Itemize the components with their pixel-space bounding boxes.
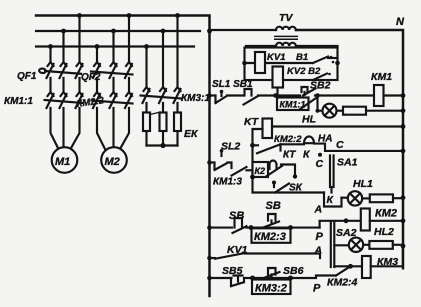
- svg-text:SA1: SA1: [337, 157, 358, 169]
- svg-text:ЕК: ЕК: [184, 128, 199, 140]
- svg-text:А: А: [314, 204, 323, 216]
- svg-text:КМ3: КМ3: [377, 256, 398, 268]
- svg-text:KV2 В2: KV2 В2: [287, 66, 321, 77]
- svg-text:К2: К2: [255, 166, 266, 176]
- svg-text:НА: НА: [318, 134, 332, 145]
- svg-text:N: N: [396, 16, 405, 28]
- svg-text:Р: Р: [313, 283, 321, 295]
- svg-text:КМ1:3: КМ1:3: [213, 177, 242, 188]
- svg-text:SB5: SB5: [222, 265, 243, 277]
- svg-text:М2: М2: [105, 156, 120, 168]
- svg-text:Р: Р: [316, 231, 324, 243]
- svg-text:КМ2:2: КМ2:2: [274, 134, 302, 145]
- svg-text:SВ: SВ: [266, 200, 281, 212]
- svg-text:С: С: [316, 158, 324, 170]
- svg-text:SК: SК: [289, 183, 303, 194]
- svg-text:КМ3:2: КМ3:2: [255, 283, 287, 295]
- svg-text:КМ2: КМ2: [375, 208, 397, 220]
- svg-text:HL: HL: [302, 114, 316, 126]
- svg-text:HL2: HL2: [374, 226, 394, 238]
- svg-text:QF2: QF2: [81, 72, 101, 83]
- svg-text:SB: SB: [229, 210, 244, 222]
- svg-text:КМ1:1: КМ1:1: [280, 100, 306, 110]
- svg-text:КМ1:1: КМ1:1: [4, 96, 33, 107]
- svg-text:КМ1: КМ1: [371, 71, 392, 83]
- svg-text:КМ2:3: КМ2:3: [254, 231, 286, 243]
- svg-text:КТ: КТ: [283, 150, 296, 161]
- svg-text:SB2: SB2: [310, 80, 331, 92]
- svg-text:KV1: KV1: [227, 244, 248, 256]
- svg-text:КМ2:4: КМ2:4: [327, 277, 358, 289]
- svg-text:В1: В1: [296, 52, 308, 63]
- svg-text:SВ6: SВ6: [283, 265, 304, 277]
- svg-text:TV: TV: [279, 12, 293, 24]
- svg-text:SL2: SL2: [221, 141, 240, 153]
- svg-text:SL1 SB1: SL1 SB1: [212, 79, 253, 90]
- svg-text:С: С: [336, 139, 344, 151]
- svg-text:КМ3:1: КМ3:1: [181, 93, 210, 104]
- svg-text:HL1: HL1: [353, 178, 373, 190]
- svg-text:KT: KT: [244, 116, 260, 128]
- svg-text:QF1: QF1: [17, 71, 37, 82]
- svg-text:KV1: KV1: [267, 52, 285, 63]
- svg-text:М1: М1: [55, 156, 70, 168]
